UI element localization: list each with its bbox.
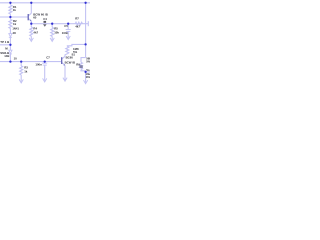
node dot bottom rail x21 bbox=[20, 60, 22, 62]
wire Q2 emitter down bbox=[64, 65, 66, 80]
node dot top-left bbox=[9, 2, 11, 4]
ground arrow below R5 bbox=[50, 38, 54, 42]
node dot bottom rail x44 bbox=[44, 60, 46, 62]
svg-text:48: 48 bbox=[13, 31, 17, 35]
svg-text:R9: R9 bbox=[76, 62, 80, 66]
transistor Q1 emitter lead bbox=[28, 18, 31, 21]
wire D1 to TP node bbox=[9, 37, 11, 50]
wire bottom rail bbox=[0, 61, 61, 63]
node dot top Q1 collector bbox=[30, 2, 32, 4]
svg-text:1k: 1k bbox=[24, 70, 28, 74]
wire output node down bbox=[85, 72, 87, 83]
wire top supply rail bbox=[0, 2, 90, 4]
svg-text:60: 60 bbox=[33, 15, 37, 19]
ground arrow below C7 bbox=[43, 78, 47, 82]
transistor Q2 collector lead bbox=[62, 56, 65, 59]
svg-text:4k7: 4k7 bbox=[33, 30, 38, 34]
resistor R4 bbox=[30, 27, 33, 36]
svg-text:C4: C4 bbox=[43, 17, 47, 21]
wire vertical x21 bbox=[20, 62, 22, 66]
ground arrow below output resistor bbox=[84, 80, 88, 84]
diode D1 bbox=[9, 34, 12, 37]
wire output to right edge bbox=[86, 71, 90, 73]
wire R2 to D1 bbox=[9, 28, 11, 33]
transistor Q1 emitter arrowhead bbox=[30, 19, 32, 21]
svg-text:BCW /B: BCW /B bbox=[65, 60, 75, 64]
svg-text:1k: 1k bbox=[13, 8, 17, 12]
resistor R5 bbox=[51, 27, 54, 36]
wire R3 to ground bbox=[20, 75, 22, 82]
wire R5 to ground bbox=[51, 36, 53, 40]
wire R1 to node bbox=[9, 14, 11, 19]
svg-text:4k7: 4k7 bbox=[75, 24, 80, 28]
ground arrow below Q2 emitter bbox=[63, 78, 67, 82]
svg-text:10: 10 bbox=[14, 56, 18, 60]
svg-text:1N41: 1N41 bbox=[12, 27, 19, 31]
resistor R2 bbox=[9, 19, 12, 28]
svg-text:C5: C5 bbox=[64, 24, 68, 28]
wire vertical x68 bbox=[67, 24, 69, 30]
ground arrow below R4 bbox=[29, 38, 33, 42]
svg-text:10k: 10k bbox=[54, 30, 59, 34]
diode D2 bbox=[9, 50, 12, 53]
wire Q1 collector vertical bbox=[30, 3, 32, 14]
svg-text:14B: 14B bbox=[4, 54, 9, 58]
node dot output bbox=[84, 71, 86, 73]
svg-text:BC60: BC60 bbox=[66, 56, 74, 60]
probe C4 stub on mid rail bbox=[44, 22, 46, 24]
node dot Q1 emitter bbox=[30, 23, 32, 25]
wire C5 to ground bbox=[67, 31, 69, 38]
resistor R7 horizontal bbox=[75, 22, 82, 25]
capacitor C5 bbox=[66, 29, 71, 31]
capacitor C7 stub bbox=[44, 62, 46, 63]
node dot bottom rail x10 bbox=[9, 60, 11, 62]
wire D2 to bottom rail bbox=[9, 54, 11, 62]
svg-text:R7: R7 bbox=[75, 17, 79, 21]
node dot top-right bbox=[84, 2, 86, 4]
svg-text:1k: 1k bbox=[13, 22, 17, 26]
wire mid rail from Q1 emitter node bbox=[31, 23, 88, 25]
probe C4 upper mark bbox=[44, 21, 47, 23]
svg-text:M: M bbox=[5, 47, 8, 51]
transistor Q2 emitter arrowhead bbox=[63, 64, 65, 66]
node dot mid rail x68 bbox=[67, 23, 69, 25]
transistor Q1 collector lead bbox=[28, 13, 31, 16]
node dot mid rail x52 bbox=[51, 23, 53, 25]
resistor R8 jog top bbox=[81, 58, 86, 63]
wire R4 to ground bbox=[30, 36, 32, 40]
svg-text:100n: 100n bbox=[62, 31, 69, 35]
transistor Q1 base bar bbox=[28, 14, 29, 20]
svg-text:5%: 5% bbox=[86, 59, 90, 63]
resistor R8 jog bottom bbox=[81, 70, 86, 72]
ground arrow below C5 bbox=[66, 36, 70, 40]
wire Q1 emitter to node bbox=[30, 21, 32, 27]
node dot R1 R2 junction bbox=[9, 16, 11, 18]
wire R6 to Q2 collector bbox=[65, 54, 67, 57]
ground arrow below R3 bbox=[19, 79, 23, 83]
wire C7 to ground bbox=[44, 65, 46, 81]
terminal tick right end of mid rail bbox=[87, 21, 89, 26]
wire TP1B stub bbox=[0, 44, 10, 46]
svg-text:100n: 100n bbox=[35, 62, 42, 66]
svg-text:C7: C7 bbox=[46, 55, 50, 59]
resistor R3 bbox=[20, 66, 23, 75]
resistor R6 bbox=[66, 46, 69, 53]
resistor R8 bbox=[80, 62, 83, 69]
svg-text:TP 1 B: TP 1 B bbox=[0, 40, 9, 44]
node dot feedback right bbox=[84, 43, 86, 45]
svg-text:16V: 16V bbox=[86, 75, 90, 79]
transistor Q2 emitter lead bbox=[62, 63, 65, 66]
wire right branch vertical bbox=[85, 3, 87, 58]
resistor R1 bbox=[9, 5, 12, 14]
probe C4 lower mark bbox=[43, 24, 47, 26]
wire left rail to Q1 base bbox=[0, 16, 28, 18]
wire vertical x52 bbox=[51, 24, 53, 28]
wire vertical x10 top bbox=[9, 3, 11, 5]
transistor Q2 base bar bbox=[61, 57, 62, 64]
capacitor C7 bbox=[42, 62, 47, 64]
value blob on R8 bbox=[79, 65, 82, 68]
node dot TP1B bbox=[9, 44, 11, 46]
resistor R6 feedback top jog bbox=[67, 44, 85, 46]
